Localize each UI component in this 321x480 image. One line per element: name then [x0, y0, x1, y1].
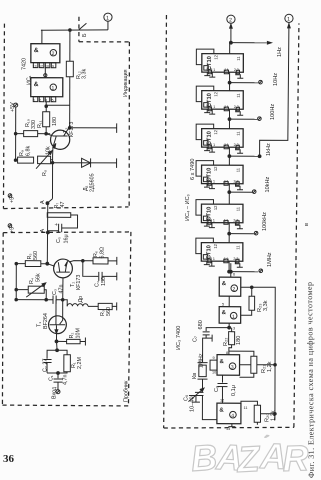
svg-text:R: R: [282, 437, 309, 479]
svg-text:180: 180: [236, 336, 242, 345]
svg-text:680: 680: [198, 320, 204, 329]
svg-text:R₂: R₂: [69, 333, 75, 339]
svg-text:13: 13: [226, 427, 230, 431]
svg-text:C₃: C₃: [52, 289, 58, 295]
svg-text:10kHz: 10kHz: [265, 176, 271, 192]
svg-text:A: A: [40, 200, 46, 204]
svg-text:1MHz: 1MHz: [199, 353, 205, 368]
svg-text:6,8k: 6,8k: [26, 146, 32, 156]
svg-text:2: 2: [233, 287, 236, 293]
svg-text:1: 1: [232, 314, 235, 320]
svg-text:6 x 7490: 6 x 7490: [190, 159, 196, 180]
svg-text:56k: 56k: [36, 273, 42, 282]
svg-text:Индикация: Индикация: [123, 69, 129, 97]
svg-text:11: 11: [235, 245, 240, 250]
svg-text:T₁: T₁: [37, 322, 43, 327]
svg-text:12: 12: [213, 91, 218, 96]
svg-text:5: 5: [222, 303, 224, 307]
svg-text:R₂₂: R₂₂: [223, 338, 229, 346]
svg-text:+: +: [54, 223, 60, 226]
svg-text:Б: Б: [82, 33, 88, 37]
svg-text:2,2M: 2,2M: [77, 357, 83, 369]
svg-text:12: 12: [39, 65, 43, 69]
svg-text:8: 8: [226, 351, 228, 355]
svg-text:КF173: КF173: [69, 122, 75, 137]
svg-text:13: 13: [33, 65, 37, 69]
svg-text:5: 5: [52, 99, 54, 103]
svg-text:11: 11: [244, 406, 248, 410]
svg-text:C₂ 27: C₂ 27: [43, 359, 49, 372]
svg-text:Др: Др: [78, 296, 84, 303]
svg-text:330: 330: [31, 120, 37, 129]
svg-text:B: B: [190, 436, 219, 479]
svg-text:Кв: Кв: [192, 373, 198, 379]
svg-text:12: 12: [213, 166, 218, 171]
svg-text:3: 3: [231, 365, 234, 371]
svg-text:&: &: [222, 281, 227, 287]
svg-text:&: &: [222, 310, 227, 316]
svg-text:C₇: C₇: [193, 336, 199, 342]
svg-text:R₈: R₈: [42, 170, 48, 176]
svg-text:1MHz: 1MHz: [267, 252, 273, 267]
svg-text:1,2k: 1,2k: [271, 410, 277, 421]
svg-text:R₉: R₉: [19, 150, 25, 156]
svg-text:2: 2: [39, 99, 41, 103]
svg-text:C₁: C₁: [49, 375, 55, 381]
svg-text:10k: 10k: [46, 146, 52, 155]
svg-text:0,1μ: 0,1μ: [231, 385, 237, 396]
svg-text:3,3k: 3,3k: [263, 300, 269, 311]
svg-text:2: 2: [229, 17, 232, 23]
svg-text:47: 47: [60, 202, 66, 208]
svg-text:11: 11: [236, 93, 241, 98]
svg-text:36: 36: [3, 453, 15, 465]
svg-text:&: &: [34, 47, 39, 54]
svg-text:Вход: Вход: [52, 386, 58, 399]
svg-text:9: 9: [213, 356, 215, 360]
svg-text:1: 1: [287, 17, 290, 23]
svg-text:560: 560: [106, 307, 112, 316]
svg-text:4,7n: 4,7n: [63, 375, 69, 386]
svg-text:3: 3: [233, 327, 235, 331]
svg-text:1kHz: 1kHz: [266, 143, 272, 156]
svg-text:2: 2: [52, 51, 55, 57]
svg-text:16μ: 16μ: [64, 234, 70, 243]
svg-text:3,3k: 3,3k: [82, 69, 88, 79]
svg-text:КF173: КF173: [76, 275, 82, 290]
svg-text:A: A: [40, 229, 46, 233]
svg-text:11: 11: [236, 56, 241, 61]
svg-text:1: 1: [52, 86, 55, 92]
svg-text:+5: +5: [10, 197, 16, 203]
svg-text:1,2k: 1,2k: [267, 361, 273, 372]
svg-text:1: 1: [33, 99, 35, 103]
svg-text:ИС₃ 7400: ИС₃ 7400: [176, 326, 182, 350]
svg-text:12: 12: [213, 129, 218, 134]
svg-text:47n: 47n: [59, 285, 65, 294]
svg-text:11: 11: [236, 131, 241, 136]
svg-text:11: 11: [236, 167, 241, 172]
svg-text:+5V: +5V: [10, 102, 16, 112]
svg-text:12: 12: [220, 399, 224, 403]
svg-text:Д₁: Д₁: [83, 185, 89, 191]
svg-text:ИС₄ – ИС₉: ИС₄ – ИС₉: [185, 194, 191, 221]
svg-text:100kHz: 100kHz: [262, 212, 268, 231]
svg-text:10: 10: [45, 65, 49, 69]
svg-text:C₄: C₄: [95, 281, 101, 287]
svg-text:2Д5605: 2Д5605: [90, 173, 96, 192]
svg-text:1: 1: [106, 16, 109, 22]
svg-text:4: 4: [231, 413, 234, 419]
svg-text:7420: 7420: [22, 58, 28, 70]
svg-text:6: 6: [233, 273, 235, 277]
svg-text:&: &: [220, 359, 225, 365]
svg-text:12: 12: [213, 205, 218, 210]
svg-text:10–40: 10–40: [190, 396, 196, 412]
svg-text:R₄: R₄: [29, 278, 35, 284]
svg-text:ИС₁: ИС₁: [27, 75, 33, 85]
svg-text:12: 12: [213, 54, 218, 59]
svg-text:Z: Z: [235, 438, 262, 480]
svg-text:6,8Ω: 6,8Ω: [100, 247, 106, 259]
svg-text:R₁₁: R₁₁: [37, 120, 43, 128]
svg-text:C₈: C₈: [214, 386, 220, 392]
svg-text:1Hz: 1Hz: [277, 47, 283, 57]
svg-text:11: 11: [235, 206, 240, 211]
svg-text:180: 180: [52, 117, 58, 126]
svg-text:10: 10: [212, 371, 216, 375]
svg-text:12: 12: [213, 243, 218, 248]
svg-text:Пробник: Пробник: [124, 380, 130, 402]
svg-text:&: &: [219, 408, 224, 414]
svg-text:4: 4: [45, 99, 47, 103]
svg-text:в: в: [304, 223, 310, 226]
svg-text:150: 150: [101, 277, 107, 286]
svg-text:R₆: R₆: [93, 251, 99, 257]
svg-text:10Hz: 10Hz: [273, 73, 279, 86]
svg-text:100Hz: 100Hz: [270, 104, 276, 120]
svg-text:9: 9: [52, 65, 54, 69]
svg-text:C₅: C₅: [56, 237, 62, 243]
svg-text:10M: 10M: [76, 328, 82, 339]
svg-text:+5: +5: [10, 227, 16, 233]
svg-text:&: &: [34, 81, 39, 88]
svg-text:BF264: BF264: [43, 313, 49, 329]
svg-text:560: 560: [33, 251, 39, 260]
